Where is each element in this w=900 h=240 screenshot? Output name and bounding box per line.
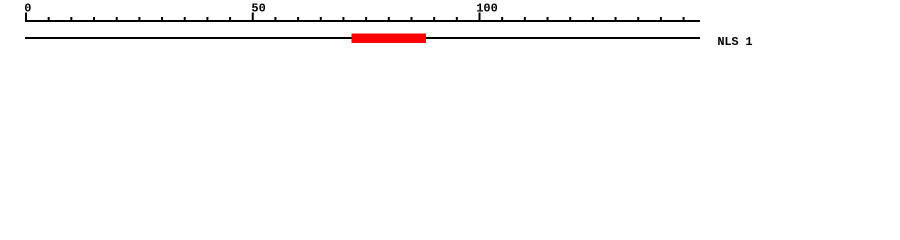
- svg-text:50: 50: [251, 2, 265, 16]
- svg-text:0: 0: [24, 2, 31, 16]
- svg-text:NLS 1: NLS 1: [717, 35, 752, 49]
- svg-text:100: 100: [476, 2, 498, 16]
